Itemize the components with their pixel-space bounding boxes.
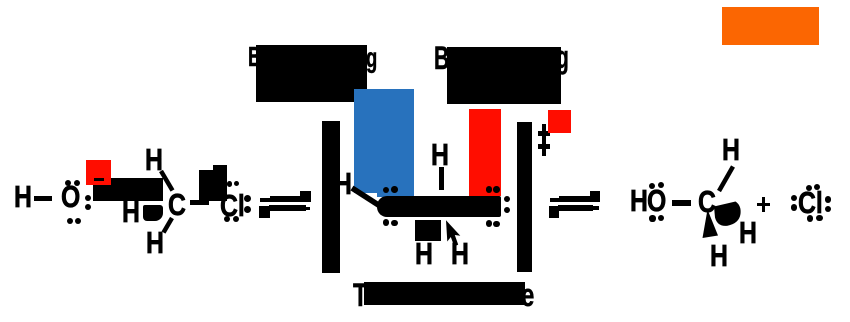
occlusion box over curved arrow at Cl (upper bump) — [213, 165, 227, 201]
double dagger: vertical bar — [542, 124, 547, 156]
TS bond H-O diagonal — [352, 188, 380, 206]
chloride lone pair left (colon) — [791, 195, 798, 202]
product methanol: atom O — [647, 185, 666, 216]
reactant hydroxide: atom H — [14, 181, 32, 212]
methyl H top — [145, 144, 163, 175]
product O lone pair top — [649, 183, 655, 189]
mouse cursor — [446, 220, 460, 246]
equilibrium arrow left: bottom harpoon — [259, 206, 270, 218]
product atom C — [698, 186, 716, 217]
bond H-O — [34, 196, 52, 201]
atom C of CH3Cl — [168, 189, 186, 220]
occlusion box over "Transition state" — [364, 282, 525, 305]
TS H top — [431, 139, 449, 170]
product solid wedge C-H bottom — [703, 210, 719, 239]
red highlight box (bond breaking) — [469, 109, 501, 196]
label Bond breaking: letter g — [556, 41, 569, 73]
double dagger: upper cross — [538, 131, 550, 136]
product H top — [722, 134, 740, 165]
TS O lone pair bottom — [383, 219, 390, 226]
product H bottom — [710, 240, 728, 271]
plus sign vertical — [762, 197, 766, 212]
right bracket of transition state — [517, 122, 532, 272]
label Transition state: letter e — [521, 279, 534, 311]
equilibrium arrow right: top harpoon — [550, 198, 561, 202]
TS bond H-C vertical — [439, 167, 444, 190]
red occlusion box over TS charge — [548, 110, 571, 133]
product bond C-H top diagonal — [719, 167, 733, 192]
TS Cl lone pair bottom — [486, 220, 493, 227]
Cl lone pair right (colon) — [244, 195, 251, 202]
chloride lone pair top — [806, 185, 812, 191]
bond C-H4 diagonal — [164, 218, 173, 233]
product H right — [739, 217, 757, 248]
TS atom H (attacking side) — [334, 168, 352, 199]
methyl H bottom — [146, 227, 164, 258]
occlusion box over curved arrow from O — [93, 178, 164, 201]
O lone pair top — [65, 180, 71, 186]
reactant hydroxide: atom O — [61, 181, 80, 212]
equilibrium arrow right: bottom harpoon — [549, 206, 560, 218]
left bracket of transition state — [322, 121, 341, 273]
double dagger: lower cross — [538, 144, 550, 149]
minus charge mark — [94, 178, 105, 181]
occlusion box over curved arrow at Cl (lower) — [199, 170, 226, 201]
Cl lone pair bottom — [224, 216, 231, 223]
label Bond forming: letter g — [366, 44, 377, 72]
chloride lone pair right (colon) — [825, 196, 832, 203]
occluded wedge bond C-H — [143, 205, 163, 222]
label Bond breaking: letter B — [434, 42, 449, 74]
chloride lone pair bottom — [807, 215, 814, 222]
atom Cl of CH3Cl — [220, 190, 245, 221]
bond C-Cl — [190, 200, 209, 205]
product methanol: atom H of OH — [630, 185, 648, 216]
red occlusion box over minus charge — [86, 160, 111, 185]
TS Cl lone pair right (colon) — [504, 196, 511, 203]
plus sign horizontal — [757, 203, 770, 207]
chloride atom Cl — [798, 187, 823, 218]
bond H3-C diagonal — [161, 171, 173, 191]
label Bond forming: letter B — [248, 43, 261, 71]
Cl lone pair top — [227, 181, 233, 187]
product rounded wedge C-H right — [714, 202, 741, 226]
occlusion box below TS bar — [415, 220, 441, 241]
occlusion box over "Bond breaking" — [447, 47, 561, 104]
occlusion box over "Bond forming" — [256, 45, 367, 102]
label Transition state: letter T — [353, 279, 368, 311]
black bar occluding O...C...Cl row of TS — [377, 196, 501, 217]
O lone pair bottom — [67, 218, 73, 224]
TS Cl lone pair top (over red) — [486, 186, 493, 193]
equilibrium arrow left: top harpoon — [260, 198, 273, 202]
blue highlight box (bond forming) — [354, 89, 414, 193]
TS H bottom-right — [451, 238, 469, 269]
blue highlight flap — [377, 192, 414, 197]
product bond O-C — [672, 200, 691, 206]
product O lone pair bottom — [649, 215, 655, 221]
O lone pair right (colon) — [85, 195, 91, 201]
methyl H left — [122, 196, 140, 227]
TS H bottom-left — [415, 238, 433, 269]
TS O lone pair top (over blue) — [383, 187, 390, 194]
orange legend box — [722, 7, 819, 45]
